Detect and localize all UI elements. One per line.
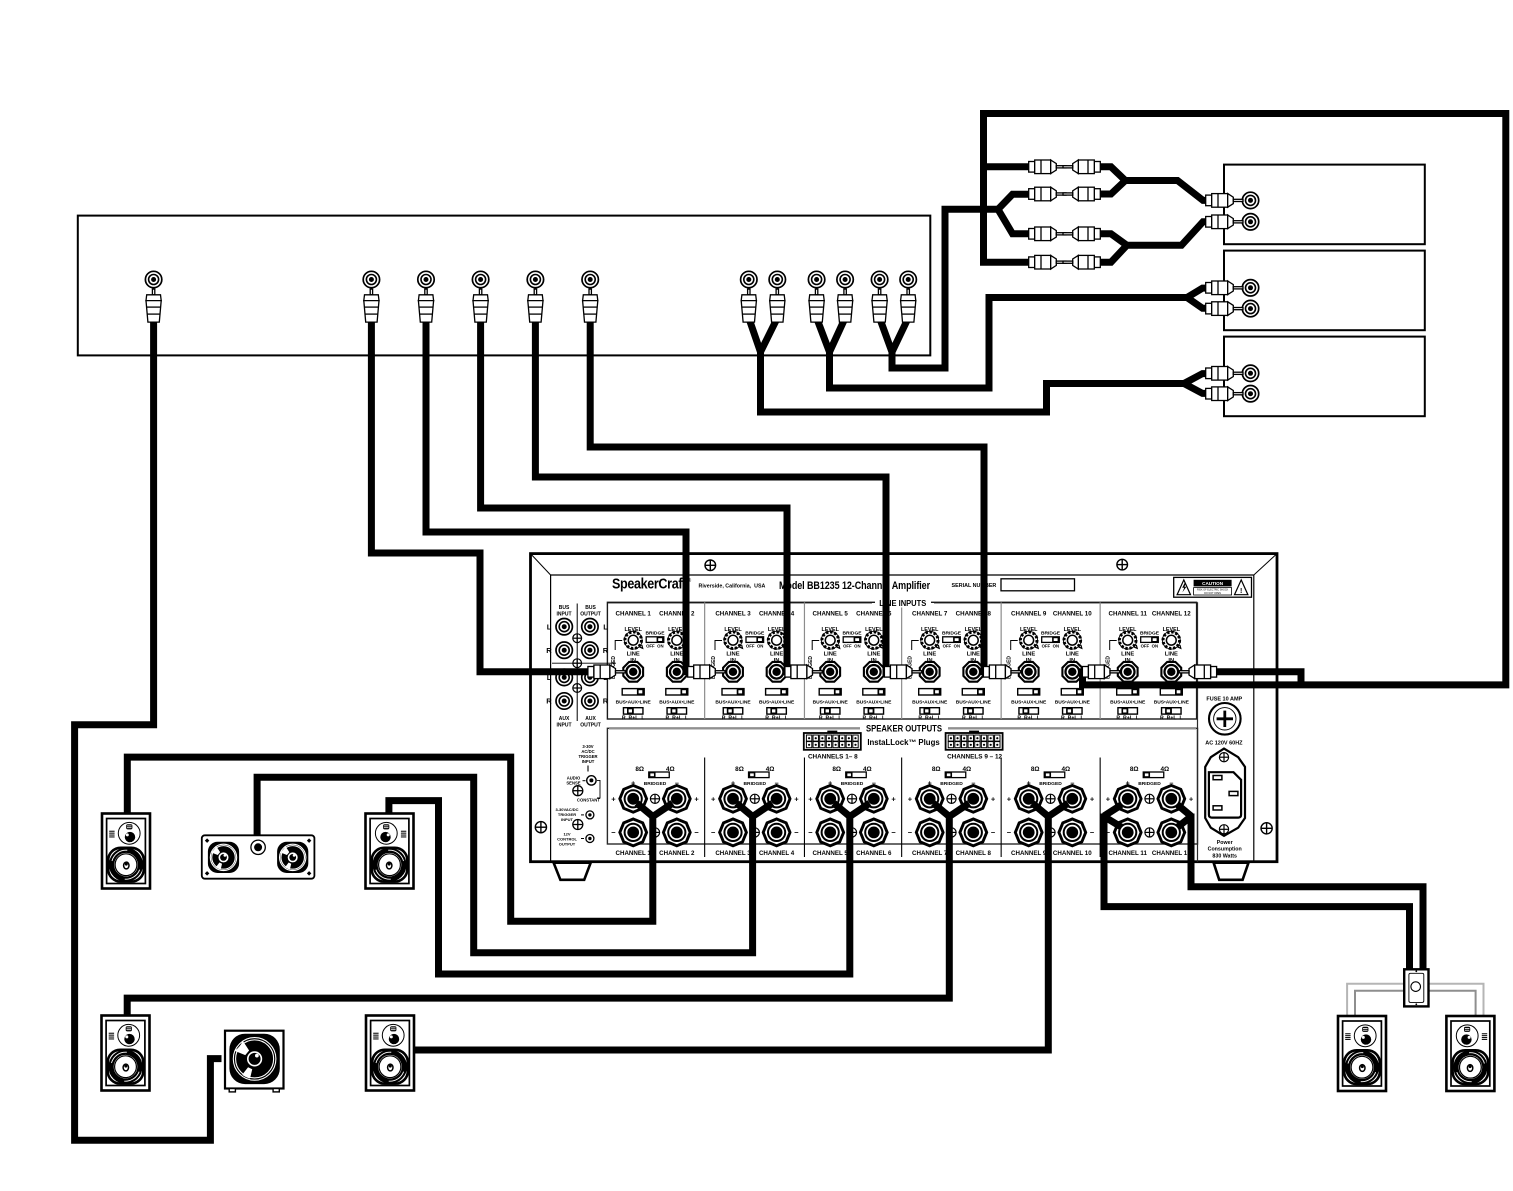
RCA plug pair [872,289,887,322]
svg-text:Power: Power [1217,840,1233,846]
svg-text:R R+L L: R R+L L [622,715,645,721]
svg-text:+: + [794,794,799,803]
svg-text:+: + [991,794,996,803]
svg-text:R R+L L: R R+L L [665,715,688,721]
binding posts ch11/ch12 [1114,785,1141,812]
channel group 5/6 line input controls [813,610,892,633]
svg-text:ON: ON [657,644,663,649]
level knobs ch5/ch6 [821,631,839,649]
impedance switch group 2 [749,772,770,778]
in-wall speaker E (volume controlled left) [1338,1016,1386,1091]
RCA plug controller output 6 [583,289,598,322]
svg-text:OFF: OFF [1141,644,1150,649]
svg-text:BRIDGED: BRIDGED [940,781,963,787]
svg-text:8Ω: 8Ω [735,766,744,773]
volume control wires to speakers (left) [1347,984,1483,1017]
InstaLLock plug block channels 1-8 [804,731,861,750]
remote source unit 3 [1224,337,1425,417]
controller output jack 1 [145,271,161,287]
svg-text:+: + [1189,794,1194,803]
svg-text:−: − [611,828,616,837]
svg-text:CHANNEL 5: CHANNEL 5 [813,850,849,857]
controller output jack 6 [582,271,598,287]
amp top screws [705,560,716,571]
svg-text:ON: ON [1053,644,1059,649]
svg-text:LINE: LINE [824,651,837,657]
svg-text:CHANNEL 5: CHANNEL 5 [813,610,849,617]
svg-text:OUTPUT: OUTPUT [559,842,576,847]
RCA plug controller output 2 [364,289,379,322]
speaker output group ch7/ch8 labels [932,766,971,773]
svg-text:+: + [1090,794,1095,803]
in-wall speaker D (ch9/10) [366,1016,414,1091]
R/R+L/L switches group 1 [623,708,643,714]
svg-text:CHANNEL 3: CHANNEL 3 [715,610,751,617]
svg-text:OFF: OFF [843,644,852,649]
svg-text:OUTPUT: OUTPUT [580,723,601,729]
R/R+L/L switches group 3 [820,708,840,714]
wire: controller output 3 to amp ch3 line in [426,318,692,672]
svg-text:FUSE 10 AMP: FUSE 10 AMP [1206,696,1242,702]
svg-text:BUS•AUX•LINE: BUS•AUX•LINE [715,700,751,706]
in-wall speaker C (ch7/8) [102,1016,150,1091]
svg-text:8Ω: 8Ω [1031,766,1040,773]
wire: zone pair 2 Y-cable to remote source 2 [817,298,1187,389]
svg-text:R R+L L: R R+L L [862,715,885,721]
fuse holder [1209,703,1241,735]
svg-text:−: − [891,828,896,837]
volume control wires to speakers (right) [1355,991,1476,1017]
svg-text:CHANNEL 2: CHANNEL 2 [659,850,695,857]
svg-text:CHANNEL 10: CHANNEL 10 [1053,610,1092,617]
svg-text:BUS•AUX•LINE: BUS•AUX•LINE [616,700,652,706]
svg-text:INPUT: INPUT [557,723,572,729]
impedance switch group 6 [1143,772,1164,778]
svg-text:Model BB1235 12-Channel Amplif: Model BB1235 12-Channel Amplifier [779,580,931,592]
svg-text:−: − [711,828,716,837]
binding posts ch9/ch10 [1015,785,1042,812]
svg-text:SPEAKER OUTPUTS: SPEAKER OUTPUTS [866,724,942,734]
wire: coupler row3/row4 Y to remote source 1 lower [1099,222,1206,262]
RCA coupler pair row 3 [1029,227,1066,241]
svg-text:AUX: AUX [559,716,570,722]
binding posts ch3/ch4 [720,785,747,812]
AC power inlet [1205,749,1245,836]
svg-text:BRIDGE: BRIDGE [1140,630,1160,636]
svg-text:CHANNEL 11: CHANNEL 11 [1108,850,1147,857]
svg-text:+: + [808,794,813,803]
speaker wire: ch7/8 bridged to in-wall speaker C [127,803,969,1019]
svg-text:BUS•AUX•LINE: BUS•AUX•LINE [1110,700,1146,706]
svg-text:LINE: LINE [670,651,683,657]
svg-text:BRIDGED: BRIDGED [1039,781,1062,787]
svg-text:OUTPUT: OUTPUT [580,611,601,617]
svg-text:BUS•AUX•LINE: BUS•AUX•LINE [1011,700,1047,706]
remote source unit 1 [1224,165,1425,245]
impedance switch group 3 [846,772,867,778]
svg-text:BRIDGED: BRIDGED [744,781,767,787]
RCA plug controller output 3 [418,289,433,322]
in-wall speaker F (volume controlled right) [1446,1016,1494,1091]
controller zone output jack pair 1 [741,271,757,287]
svg-text:CHANNEL 1: CHANNEL 1 [616,850,652,857]
controller zone output jack pair 2 [808,271,824,287]
svg-text:8Ω: 8Ω [832,766,841,773]
speaker wire: ch1/2 bridged to in-wall speaker A [127,757,672,921]
svg-text:R R+L L: R R+L L [722,715,745,721]
svg-text:CHANNEL 6: CHANNEL 6 [856,850,892,857]
svg-text:BRIDGED: BRIDGED [841,781,864,787]
RCA plug controller output 4 [473,289,488,322]
svg-text:+: + [908,794,913,803]
channel group 1/2 line input controls [616,610,695,633]
bus/aux jacks row L [556,669,572,685]
bus-aux-line switches group 4 [919,689,941,695]
bus/aux jacks row L [556,619,572,635]
trigger / audio sense controls [566,744,600,803]
svg-text:CHANNEL 7: CHANNEL 7 [912,850,948,857]
RCA coupler pair row 4 [1029,255,1066,269]
line in jacks ch11/ch12 [1118,662,1138,682]
bus-aux-line switches group 5 [1018,689,1040,695]
svg-text:ON: ON [954,644,960,649]
amplifier SpeakerCraft BB1235 rear panel [531,554,1278,862]
svg-text:−: − [991,828,996,837]
svg-text:Consumption: Consumption [1208,847,1242,853]
svg-text:BUS: BUS [585,605,596,611]
svg-text:LINE: LINE [1165,651,1178,657]
R/R+L/L switches group 6 [1118,708,1138,714]
svg-text:Riverside, California, USA: Riverside, California, USA [699,584,766,590]
remote source unit 2 input jacks [1242,280,1258,296]
svg-text:LINE: LINE [967,651,980,657]
svg-text:BRIDGE: BRIDGE [645,630,665,636]
bus-aux-line switches group 6 [1117,689,1139,695]
svg-text:OFF: OFF [646,644,655,649]
svg-text:8Ω: 8Ω [932,766,941,773]
svg-text:830 Watts: 830 Watts [1212,853,1237,859]
svg-text:−: − [1007,828,1012,837]
RCA plug into amp ch3 line in [688,665,725,679]
RCA plug pair [809,289,824,322]
svg-text:LINE: LINE [923,651,936,657]
volume control [1404,969,1428,1006]
svg-text:BRIDGE: BRIDGE [1041,630,1061,636]
caution label [1174,577,1252,597]
fuse and AC inlet column [1197,602,1199,861]
svg-text:LINE: LINE [627,651,640,657]
svg-text:CHANNEL 1: CHANNEL 1 [616,610,652,617]
svg-text:INPUT: INPUT [557,611,572,617]
RCA plug into amp ch5 line in [785,665,822,679]
svg-text:BUS•AUX•LINE: BUS•AUX•LINE [1154,700,1190,706]
wire: controller output 1 to subwoofer [75,318,222,1140]
svg-text:LINE: LINE [1066,651,1079,657]
bus-aux-line switches group 2 [722,689,744,695]
svg-text:+: + [694,794,699,803]
svg-text:AC 120V 60HZ: AC 120V 60HZ [1205,740,1243,746]
wire: controller output 2 to amp ch1 line in [371,318,592,672]
remote source unit 3 input jacks [1242,365,1258,381]
wire: controller output 4 to amp ch5 line in [481,318,790,672]
speaker output group ch5/ch6 labels [832,766,871,773]
svg-text:R R+L L: R R+L L [918,715,941,721]
remote source unit 2 [1224,251,1425,331]
svg-text:BRIDGE: BRIDGE [745,630,765,636]
speaker output group ch9/ch10 labels [1031,766,1070,773]
channel group 7/8 line input controls [912,610,991,633]
level knobs ch3/ch4 [724,631,742,649]
bus-aux-line switches group 1 [622,689,644,695]
svg-text:CHANNEL 12: CHANNEL 12 [1152,610,1191,617]
wire: amp ch12 line-in to right side run [1213,672,1301,687]
bus/aux jacks row R [556,642,572,658]
svg-text:LINE: LINE [770,651,783,657]
speaker output group ch1/ch2 labels [635,766,674,773]
svg-text:SENSE: SENSE [566,781,580,786]
svg-text:CHANNEL 7: CHANNEL 7 [912,610,948,617]
svg-text:!: ! [1240,588,1242,595]
RCA coupler pair row 1 [1029,160,1066,174]
svg-text:−: − [794,828,799,837]
svg-text:CHANNEL 9: CHANNEL 9 [1011,610,1047,617]
svg-text:R: R [546,646,552,655]
RCA plug controller output 5 [528,289,543,322]
wire: controller output 6 to amp ch9 line in [590,318,988,672]
RCA plugs into remote source 2 [1206,281,1243,295]
svg-text:BRIDGE: BRIDGE [842,630,862,636]
channel group 9/10 line input controls [1011,610,1092,633]
center channel speaker (ch3/4) [202,835,315,878]
svg-text:L: L [547,622,552,631]
svg-text:+: + [1007,794,1012,803]
controller output jack 5 [527,271,543,287]
svg-text:BUS•AUX•LINE: BUS•AUX•LINE [759,700,795,706]
bus input/output jack field [552,604,616,722]
wire: zone pair 1 Y-cable to remote source 3 [749,318,1184,412]
wire: coupler row 1 feed branch [984,163,1031,170]
svg-text:CHANNEL 8: CHANNEL 8 [956,850,992,857]
svg-text:R: R [603,646,609,655]
svg-text:8Ω: 8Ω [635,766,644,773]
wire: coupler row1/row2 Y to remote source 1 upper [1099,167,1206,201]
line input channel group boxes [607,602,1196,719]
InstaLLock plug block channels 9-12 [946,731,1003,750]
level knobs ch7/ch8 [921,631,939,649]
speaker group dividers [705,758,1101,858]
svg-text:CHANNEL 2: CHANNEL 2 [659,610,695,617]
svg-text:INPUT: INPUT [561,817,574,822]
line in jacks ch7/ch8 [920,662,940,682]
svg-text:CHANNEL 4: CHANNEL 4 [759,850,795,857]
svg-text:CHANNEL 9: CHANNEL 9 [1011,850,1047,857]
svg-text:LINE: LINE [867,651,880,657]
impedance switch group 5 [1044,772,1065,778]
controller output jack 3 [418,271,434,287]
svg-text:R R+L L: R R+L L [1017,715,1040,721]
RCA plug into amp ch7 line in [884,665,921,679]
svg-text:ON: ON [854,644,860,649]
svg-text:CHANNELS 1– 8: CHANNELS 1– 8 [808,753,858,760]
channel group 3/4 line input controls [715,610,794,633]
RCA plugs into remote source 1 [1206,194,1243,208]
svg-text:ON: ON [757,644,763,649]
svg-text:CHANNELS 9 – 12: CHANNELS 9 – 12 [947,753,1002,760]
binding posts ch5/ch6 [817,785,844,812]
controller zone output jack pair 3 [871,271,887,287]
RCA coupler pair row 2 [1029,187,1066,201]
svg-text:+: + [891,794,896,803]
svg-text:−: − [808,828,813,837]
svg-text:R R+L L: R R+L L [962,715,985,721]
R/R+L/L switches group 2 [723,708,743,714]
svg-text:BUS•AUX•LINE: BUS•AUX•LINE [912,700,948,706]
svg-text:−: − [694,828,699,837]
bus/aux jacks row R [556,693,572,709]
RCA plug into amp ch1 line in [588,665,625,679]
speaker wire: ch12 to volume control [1178,805,1423,970]
binding posts ch7/ch8 [916,785,943,812]
svg-text:OFF: OFF [746,644,755,649]
RCA plug controller output 1 [146,289,161,322]
svg-text:OFF: OFF [943,644,952,649]
svg-text:+: + [611,794,616,803]
svg-text:−: − [908,828,913,837]
svg-text:BRIDGED: BRIDGED [644,781,667,787]
svg-text:CHANNEL 12: CHANNEL 12 [1152,850,1191,857]
svg-text:LINE: LINE [1022,651,1035,657]
RCA plugs into remote source 3 [1206,367,1243,381]
LINE INPUTS header [608,602,872,604]
svg-text:CHANNEL 11: CHANNEL 11 [1108,610,1147,617]
R/R+L/L switches group 4 [920,708,940,714]
impedance switch group 4 [945,772,966,778]
svg-text:BRIDGED: BRIDGED [1138,781,1161,787]
svg-text:BUS•AUX•LINE: BUS•AUX•LINE [1055,700,1091,706]
svg-text:BUS•AUX•LINE: BUS•AUX•LINE [956,700,992,706]
wire: controller output 5 to amp ch7 line in [535,318,888,672]
speaker wire: ch3/4 bridged to center channel speaker [257,777,772,952]
line in jacks ch3/ch4 [723,662,743,682]
controller output jack 4 [472,271,488,287]
svg-text:R: R [603,697,609,706]
speaker output group ch11/ch12 labels [1130,766,1169,773]
wire: amp ch10/ch11 line-in loop to couplers (right side run) [984,114,1506,685]
svg-text:R R+L L: R R+L L [1116,715,1139,721]
svg-text:CONSTANT: CONSTANT [577,798,600,803]
svg-text:CHANNEL 10: CHANNEL 10 [1053,850,1092,857]
RCA plug into amp ch11 line in [1082,665,1119,679]
controller output jack 2 [363,271,379,287]
impedance switch group 1 [649,772,670,778]
svg-text:+: + [711,794,716,803]
svg-text:BRIDGE: BRIDGE [942,630,962,636]
amp feet [554,863,591,880]
speaker outputs section box [607,728,1197,844]
level knobs ch1/ch2 [624,631,642,649]
svg-text:L: L [603,622,608,631]
channel group 11/12 line input controls [1108,610,1191,633]
in-wall speaker A (ch1/2) [102,814,150,889]
svg-text:InstaLLock™ Plugs: InstaLLock™ Plugs [867,738,940,747]
wire: zone pair 3 Y-cable to coupler rows 2/3 [880,209,998,368]
speaker wire: ch5/6 bridged to in-wall speaker B [389,801,870,974]
svg-text:BUS•AUX•LINE: BUS•AUX•LINE [659,700,695,706]
svg-text:INPUT: INPUT [582,759,595,764]
line in jacks ch5/ch6 [820,662,840,682]
svg-text:R R+L L: R R+L L [819,715,842,721]
speaker wire: ch11 to volume control [1104,805,1410,970]
svg-text:R R+L L: R R+L L [765,715,788,721]
svg-text:SpeakerCraft: SpeakerCraft [612,577,686,593]
svg-text:CAUTION: CAUTION [1202,581,1224,586]
level knobs ch9/ch10 [1020,631,1038,649]
line in jacks ch1/ch2 [623,662,643,682]
svg-text:BUS•AUX•LINE: BUS•AUX•LINE [856,700,892,706]
speaker wire: ch9/10 bridged to in-wall speaker D [413,803,1068,1050]
line in jacks ch9/ch10 [1019,662,1039,682]
RCA plug into amp ch12 line in [1179,665,1216,679]
remote source unit 1 input jacks [1242,192,1258,208]
subwoofer [225,1031,284,1092]
RCA plug into amp ch9 line in [983,665,1020,679]
svg-text:BUS: BUS [559,605,570,611]
amp side screws [535,822,546,833]
svg-text:AUX: AUX [585,716,596,722]
svg-text:BUS•AUX•LINE: BUS•AUX•LINE [813,700,849,706]
svg-text:CHANNEL 3: CHANNEL 3 [715,850,751,857]
R/R+L/L switches group 5 [1019,708,1038,714]
level knobs ch11/ch12 [1119,631,1137,649]
svg-text:OFF: OFF [1042,644,1051,649]
speaker output group ch3/ch4 labels [735,766,774,773]
svg-text:ON: ON [1152,644,1158,649]
source controller unit [78,216,931,356]
svg-text:LINE: LINE [1121,651,1134,657]
svg-text:DO NOT OPEN: DO NOT OPEN [1204,592,1221,595]
svg-text:−: − [1090,828,1095,837]
svg-text:R R+L L: R R+L L [1160,715,1183,721]
svg-text:+: + [1106,794,1111,803]
svg-text:R R+L L: R R+L L [1061,715,1084,721]
serial number box [1001,579,1075,591]
svg-text:LINE: LINE [726,651,739,657]
svg-text:SERIAL NUMBER: SERIAL NUMBER [952,583,997,589]
RCA plug pair [741,289,756,322]
in-wall speaker B (ch5/6) [366,814,414,889]
svg-text:R: R [546,697,552,706]
binding posts ch1/ch2 [620,785,647,812]
bus-aux-line switches group 3 [819,689,841,695]
svg-text:8Ω: 8Ω [1130,766,1139,773]
